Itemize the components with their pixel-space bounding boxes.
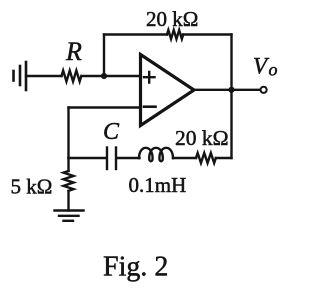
ground (left, sideways chassis) [14,62,27,90]
svg-text:0.1mH: 0.1mH [129,173,187,197]
op-amp U1 [141,55,195,126]
wire: 5k resistor to ground [67,191,69,211]
wire: down from T junction to 5k resistor [67,158,69,171]
svg-text:5 kΩ: 5 kΩ [11,175,53,199]
op-amp + input marker [144,72,155,83]
wire: top feedback right segment [183,33,232,35]
wire: op-amp output [194,89,261,91]
svg-text:20 kΩ: 20 kΩ [175,126,229,150]
wire: top feedback left segment [104,33,167,35]
svg-text:o: o [269,60,278,80]
wire: bottom resistor to right vertical [216,157,232,159]
terminal Vo (open circle) [261,87,267,93]
svg-text:R: R [65,37,82,66]
svg-text:V: V [253,54,270,79]
inductor 0.1mH [139,148,173,162]
ground (bottom) [55,211,84,221]
resistor 20k (bottom) [196,153,216,163]
svg-text:20 kΩ: 20 kΩ [146,7,198,31]
wire: op-amp - input horizontal [69,106,141,108]
capacitor C [107,148,116,170]
op-amp - input marker [144,105,156,108]
wire: bottom wire to capacitor [69,157,107,159]
node (output junction dot) [228,87,234,93]
wire: left ground to resistor R [26,75,62,77]
svg-text:C: C [103,119,120,145]
wire: capacitor to inductor [117,157,140,159]
svg-text:Fig. 2: Fig. 2 [103,252,168,283]
wire: inductor to resistor [173,157,196,159]
resistor 5k (vertical) [64,171,74,191]
wire: node A up to feedback line [103,35,105,77]
wire: left riser down from - input [67,108,69,159]
wire: resistor R to op-amp + input [82,75,141,77]
resistor 20k (top feedback) [167,30,183,39]
node A (junction dot at + input) [101,73,107,79]
wire: right vertical (feedback to output and RL branch) [230,35,232,159]
resistor R [62,71,82,82]
